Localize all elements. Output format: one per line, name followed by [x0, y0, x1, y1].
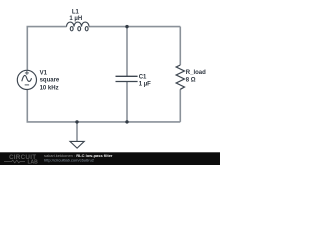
svg-text:10 kHz: 10 kHz	[40, 85, 59, 91]
node junction bottom C1	[125, 120, 128, 123]
wire top-left segment with left corner	[27, 27, 66, 71]
svg-text:V1: V1	[40, 70, 48, 76]
resistor R_load zigzag	[176, 65, 184, 89]
V1 plus sign	[25, 71, 29, 75]
wire ground stub	[76, 122, 78, 141]
svg-text:square: square	[40, 78, 60, 84]
voltage source V1	[17, 70, 36, 89]
wire capacitor branch upper	[126, 27, 128, 76]
footer bar	[0, 152, 220, 165]
wire top-right segment	[89, 26, 180, 28]
node junction ground	[75, 120, 78, 123]
svg-text:http://circuitlab.com/c6u6ru2: http://circuitlab.com/c6u6ru2	[44, 158, 95, 163]
wire bottom segment	[77, 121, 180, 123]
svg-text:LAB: LAB	[28, 159, 39, 165]
inductor L1 coil	[67, 22, 90, 31]
wire left vertical below V1 to bottom-left corner	[27, 89, 77, 122]
wire capacitor branch lower	[126, 82, 128, 122]
capacitor C1 plates	[116, 76, 138, 81]
svg-text:1 µF: 1 µF	[139, 81, 151, 87]
svg-text:R_load: R_load	[186, 70, 206, 76]
V1 wave glyph	[22, 75, 32, 81]
wire right vertical top	[179, 27, 181, 65]
svg-text:1 µH: 1 µH	[69, 16, 82, 22]
V1 minus sign	[25, 84, 29, 86]
svg-text:L1: L1	[72, 10, 80, 16]
ground symbol	[70, 141, 84, 148]
CircuitLab logo resistor + LAB	[4, 160, 25, 163]
svg-text:8 Ω: 8 Ω	[186, 78, 196, 84]
node junction top C1	[125, 25, 128, 28]
wire right vertical bottom	[179, 89, 181, 122]
svg-text:C1: C1	[139, 74, 147, 80]
